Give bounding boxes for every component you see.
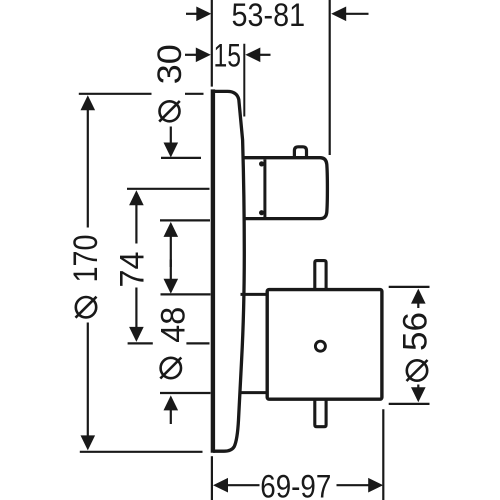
svg-text:15: 15 (213, 38, 241, 74)
reference line sleeve top for dia48 (161, 293, 211, 295)
svg-text:74: 74 (114, 252, 152, 288)
dia170 stem upper (87, 109, 89, 228)
arrowhead dia170 bottom (81, 435, 96, 450)
dia56 stem upper (417, 303, 419, 309)
dia30 lower stem (170, 236, 172, 267)
upper handle top nub (294, 147, 306, 157)
diameter symbol of dia56 label (407, 360, 428, 381)
reference line square bottom for dia56 (389, 403, 430, 405)
extension line right of 15 (243, 44, 245, 117)
upper handle collar joint line (263, 160, 266, 218)
reference line square top for dia56 (389, 286, 430, 288)
svg-text:30: 30 (151, 44, 189, 84)
dia56 stem lower (417, 385, 419, 389)
dimension 15 left stem (185, 54, 197, 56)
svg-text:170: 170 (67, 235, 105, 283)
lower control top tab (315, 261, 326, 289)
escutcheon plate outline (213, 91, 244, 451)
svg-text:56: 56 (397, 312, 435, 351)
svg-text:48: 48 (155, 307, 193, 343)
dimension 15 right stem (260, 54, 271, 56)
extension line 69-97 left (211, 456, 213, 500)
svg-text:69-97: 69-97 (260, 469, 331, 500)
arrowhead 69-97 left (213, 478, 228, 493)
74 stem upper (135, 205, 137, 244)
svg-text:53-81: 53-81 (232, 0, 306, 33)
upper handle body (242, 158, 327, 219)
arrowhead 53-81 left (196, 7, 211, 22)
arrowhead 74 bottom (129, 327, 144, 342)
arrowhead 15 right (245, 48, 260, 63)
reference line handle axis for 74 (127, 188, 210, 190)
lower control square (267, 290, 382, 400)
arrowhead 15 left (196, 48, 211, 63)
lower control sleeve top line (241, 293, 268, 296)
lower control sleeve bottom line (240, 391, 268, 394)
reference line plate top for dia170 left part (79, 93, 152, 95)
reference line plate bottom for dia170 (80, 451, 203, 453)
reference line square axis for 74 right part (186, 342, 209, 344)
arrowhead dia48 lower pointing up (164, 395, 179, 410)
diameter symbol of dia48 label (160, 358, 181, 379)
reference line handle bottom for dia30 (160, 219, 210, 221)
arrowhead dia170 top (81, 95, 96, 110)
dimension 53-81 right stem (346, 13, 369, 15)
arrowhead dia30 lower pointing up (164, 222, 179, 237)
dia170 stem lower (87, 323, 89, 438)
upper handle joint fillet bottom (259, 210, 264, 215)
arrowhead 74 top (129, 190, 144, 205)
lower control center dot (315, 341, 325, 351)
arrowhead 53-81 right (331, 7, 346, 22)
arrowhead dia30 upper pointing down (164, 143, 179, 158)
arrowhead dia56 top pointing up (411, 289, 426, 304)
reference line square axis for 74 left part (128, 342, 153, 344)
arrowhead dia56 bottom pointing down (411, 387, 426, 402)
diameter symbol of dia30 label (159, 101, 180, 122)
dia48 upper stem (170, 260, 172, 280)
arrowhead 69-97 right (368, 478, 383, 493)
arrowhead dia48 upper pointing down (164, 279, 179, 294)
reference line sleeve bottom for dia48 (160, 392, 211, 394)
dimension line 69-97 right stem (337, 484, 369, 486)
lower control bottom tab (315, 400, 326, 427)
reference line plate top for dia170 right part (185, 93, 204, 95)
extension line right of 53-81 (329, 0, 331, 155)
dia48 lower stem (170, 410, 172, 424)
dimension line 69-97 left stem (228, 484, 260, 486)
dia30 upper stem (170, 127, 172, 145)
extension line 69-97 right (382, 409, 384, 500)
reference line handle top for dia30 (161, 157, 201, 159)
74 stem lower (135, 288, 137, 328)
upper handle joint fillet top (259, 161, 264, 166)
extension line left of 53-81 and 15 (211, 0, 213, 87)
diameter symbol of dia170 label (76, 297, 97, 318)
escutcheon plate left face (211, 89, 215, 452)
dimension 53-81 left stem (186, 13, 197, 15)
